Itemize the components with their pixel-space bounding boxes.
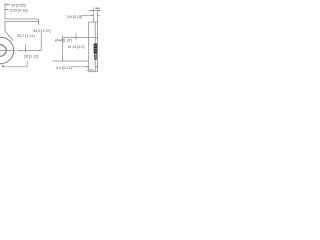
svg-text:3,9 [0.15]: 3,9 [0.15] (67, 14, 82, 19)
arrowhead bottom-right right (95, 66, 97, 67)
dimension tick x76 (75, 34, 77, 41)
plate top edge (89, 21, 98, 23)
top-right dim line (89, 10, 100, 12)
arrowhead top-right dim left (91, 10, 93, 11)
svg-text:Ø44 [1.37]: Ø44 [1.37] (55, 38, 72, 43)
plate bottom edge (89, 71, 98, 73)
outer circle (front view disc) (0, 37, 14, 63)
arrowhead centerline end (39, 50, 41, 51)
plate right edge (96, 22, 98, 72)
svg-text:5,3 [0.21]: 5,3 [0.21] (56, 65, 71, 70)
svg-text:34,9 [1.37]: 34,9 [1.37] (33, 28, 51, 33)
bottom-right lower dim line (86, 69, 94, 71)
centerline tick (25, 45, 27, 53)
band end extension line (38, 19, 40, 25)
arrowhead circle leader (2, 65, 5, 67)
side view boss bottom edge (53, 60, 89, 62)
top-right extension line right (96, 10, 98, 22)
band bottom line (5, 21, 39, 23)
plate left edge (88, 22, 90, 72)
band top line (5, 18, 39, 20)
nut section below threads (94, 54, 96, 60)
diameter leader vertical (26, 62, 28, 67)
bottom-right dim stub (95, 66, 98, 68)
top-right leader stub (97, 14, 100, 16)
svg-text:Ø 14 [0.2]: Ø 14 [0.2] (68, 44, 84, 49)
leader line dim1 (5, 4, 11, 6)
arrowhead lower dim (91, 69, 93, 71)
note smudge top-right (95, 7, 99, 9)
tab chamfer diagonal (5, 31, 12, 40)
leader vertical to centerline (40, 33, 42, 50)
svg-text:3,99 [0.16]: 3,99 [0.16] (10, 8, 28, 13)
arrowhead boss dim top (62, 38, 63, 40)
bottom-right leader from text (71, 66, 89, 68)
boss height dimension line (62, 35, 64, 61)
centerline (0, 49, 41, 51)
arrowhead boss dim bottom (62, 59, 63, 61)
arrowhead top-right dim right (97, 10, 99, 11)
svg-text:28 [1.12]: 28 [1.12] (24, 53, 39, 58)
top-right extension line left (93, 8, 95, 23)
arrowhead tick x76 (74, 37, 76, 38)
diameter leader horizontal (2, 66, 27, 68)
top-right leader to text (82, 14, 94, 16)
tab vertical edge (4, 22, 6, 32)
threaded section (94, 44, 98, 54)
plate inner vertical (94, 22, 96, 72)
arrowhead band end (38, 20, 39, 22)
top-left extension line (4, 3, 6, 19)
arrowhead bottom-right left (86, 66, 88, 67)
leader line dim2 (5, 9, 10, 11)
arrowhead dim2 (5, 9, 8, 10)
svg-text:30,7 [1.21]: 30,7 [1.21] (17, 33, 35, 38)
arrowhead top-right leader (91, 15, 93, 16)
side view boss top edge (63, 37, 97, 39)
inner circle (center hole) (0, 45, 6, 56)
arrowhead dim1 (5, 4, 8, 5)
